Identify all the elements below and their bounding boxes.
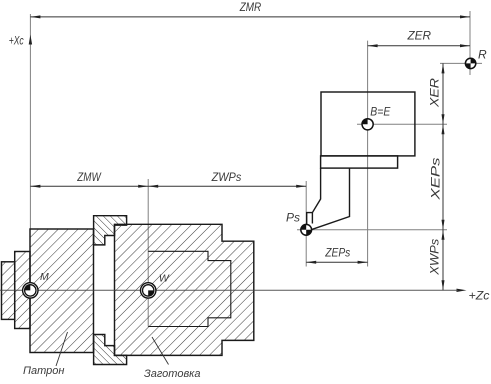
wire: W vertical extension line — [147, 179, 149, 327]
svg-text:ZER: ZER — [407, 29, 432, 43]
chuck flange — [15, 252, 30, 329]
tool clamp plate — [321, 156, 398, 168]
axis arrow +Zc — [457, 289, 467, 292]
svg-text:ZWPs: ZWPs — [211, 170, 242, 184]
chuck jaw bottom — [94, 335, 127, 365]
svg-text:Патрон: Патрон — [23, 365, 64, 377]
dimension ZMW — [30, 170, 148, 188]
dimension ZEPs — [306, 246, 367, 264]
label Заготовка with leader — [144, 337, 201, 380]
point R — [465, 48, 487, 69]
svg-text:+Zc: +Zc — [469, 289, 490, 303]
svg-text:ZMR: ZMR — [239, 0, 262, 14]
dimension ZER — [368, 29, 470, 48]
dimension XER — [427, 63, 444, 124]
svg-text:XWPs: XWPs — [428, 239, 442, 276]
wire: Ps vertical extension line — [305, 181, 307, 267]
wire: X axis vertical line — [29, 14, 31, 229]
label Патрон with leader — [23, 332, 68, 377]
svg-text:ZMW: ZMW — [76, 170, 102, 184]
tool shank and nose — [307, 168, 350, 230]
dimension ZMR — [30, 0, 470, 18]
svg-text:W: W — [159, 273, 170, 285]
dimension XEPs — [429, 124, 445, 230]
workpiece outer profile — [115, 224, 254, 355]
svg-text:+Xc: +Xc — [9, 34, 24, 48]
chuck jaw top — [94, 216, 127, 245]
chuck rear small rect — [2, 262, 15, 320]
wire: Z centerline over parts — [0, 289, 458, 291]
wire: B=E horizontal extension line — [357, 123, 447, 125]
wire: R vertical extension line — [469, 11, 471, 75]
svg-text:XER: XER — [427, 78, 441, 109]
workpiece inner contour — [148, 251, 231, 326]
dimension XWPs — [428, 230, 445, 290]
svg-text:XEPs: XEPs — [429, 158, 443, 201]
svg-text:ZEPs: ZEPs — [324, 246, 350, 260]
svg-text:Ps: Ps — [286, 211, 300, 225]
axis arrow +Xc — [29, 35, 32, 45]
dimension ZWPs — [148, 170, 306, 188]
point M — [23, 271, 49, 298]
wire: Ps horizontal centerline — [297, 229, 447, 231]
chuck body — [30, 229, 94, 353]
svg-text:R: R — [478, 48, 487, 62]
wire: R horizontal extension line — [440, 62, 482, 64]
wire: B=E vertical extension line — [367, 41, 369, 267]
point B=E — [362, 104, 391, 130]
svg-text:B=E: B=E — [370, 104, 391, 118]
wire: Z centerline axis — [0, 289, 458, 291]
svg-text:M: M — [40, 271, 49, 283]
point Ps — [286, 211, 312, 236]
tool holder main block — [321, 92, 415, 156]
svg-text:Заготовка: Заготовка — [144, 368, 201, 380]
point W — [141, 273, 170, 299]
